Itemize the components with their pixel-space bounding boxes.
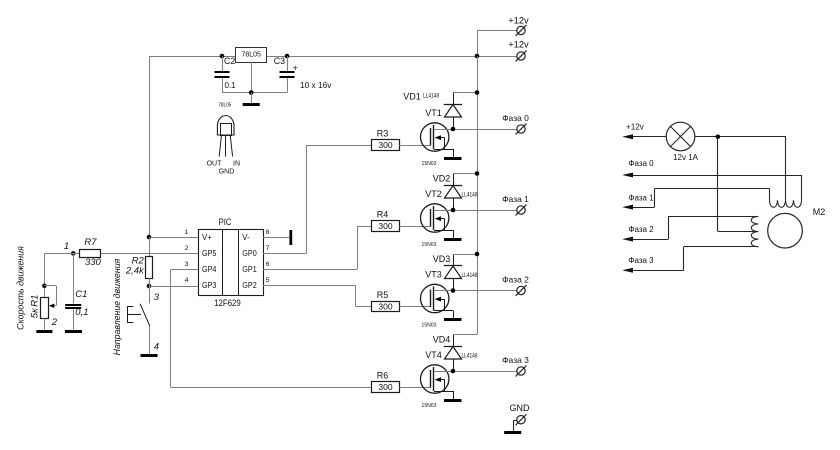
svg-text:2: 2 — [185, 245, 189, 252]
svg-text:+12v: +12v — [626, 123, 644, 132]
svg-text:VD2: VD2 — [433, 173, 451, 183]
svg-text:Фаза 0: Фаза 0 — [628, 159, 654, 168]
svg-text:GP4: GP4 — [202, 265, 217, 274]
svg-text:5: 5 — [266, 277, 270, 284]
svg-text:4: 4 — [185, 277, 189, 284]
svg-text:12F629: 12F629 — [214, 298, 241, 308]
svg-text:4: 4 — [154, 342, 159, 353]
svg-text:1: 1 — [64, 241, 69, 252]
svg-text:15N03: 15N03 — [422, 403, 437, 409]
svg-text:+12v: +12v — [508, 16, 529, 26]
svg-text:LL4148: LL4148 — [462, 192, 478, 199]
svg-text:0.1: 0.1 — [225, 81, 237, 90]
svg-text:GP1: GP1 — [242, 265, 256, 274]
svg-text:1: 1 — [185, 229, 189, 236]
svg-text:Фаза 1: Фаза 1 — [628, 194, 654, 203]
svg-text:7: 7 — [266, 245, 270, 252]
svg-text:GP0: GP0 — [242, 249, 257, 258]
svg-text:V+: V+ — [202, 233, 212, 242]
svg-text:15N03: 15N03 — [422, 161, 437, 167]
svg-text:C2: C2 — [224, 56, 235, 66]
svg-text:M2: M2 — [813, 207, 826, 217]
svg-text:C1: C1 — [75, 289, 87, 300]
svg-text:LL4148: LL4148 — [462, 353, 478, 360]
svg-text:LL4148: LL4148 — [462, 273, 478, 280]
svg-text:IN: IN — [233, 160, 240, 167]
svg-text:GND: GND — [219, 169, 235, 176]
svg-text:300: 300 — [378, 221, 392, 231]
svg-text:GP3: GP3 — [202, 281, 216, 290]
svg-text:GP5: GP5 — [202, 249, 217, 258]
svg-text:R3: R3 — [377, 129, 389, 139]
svg-text:2,4k: 2,4k — [125, 266, 145, 277]
svg-text:300: 300 — [378, 382, 392, 392]
svg-text:VD3: VD3 — [433, 254, 451, 264]
svg-text:C3: C3 — [274, 56, 285, 66]
svg-text:300: 300 — [378, 140, 392, 150]
svg-text:LL4148: LL4148 — [423, 93, 439, 100]
svg-text:12v 1A: 12v 1A — [673, 153, 699, 162]
svg-text:3: 3 — [154, 292, 160, 303]
svg-text:R4: R4 — [377, 210, 389, 220]
svg-text:V-: V- — [242, 233, 250, 242]
svg-text:Направление движения: Направление движения — [112, 258, 122, 355]
svg-text:VT2: VT2 — [425, 189, 442, 199]
svg-text:15N03: 15N03 — [422, 242, 437, 248]
svg-text:6: 6 — [266, 261, 270, 268]
svg-text:Фаза 1: Фаза 1 — [502, 194, 529, 204]
svg-text:VT3: VT3 — [425, 269, 442, 279]
svg-text:GP2: GP2 — [242, 281, 256, 290]
svg-text:R1: R1 — [29, 295, 40, 307]
svg-text:78L05: 78L05 — [218, 102, 231, 108]
svg-text:78L05: 78L05 — [241, 51, 261, 58]
svg-text:Фаза 3: Фаза 3 — [502, 355, 529, 365]
svg-text:300: 300 — [378, 302, 392, 312]
svg-text:15N03: 15N03 — [422, 322, 437, 328]
svg-text:GND: GND — [510, 403, 531, 413]
svg-text:Фаза 2: Фаза 2 — [502, 275, 529, 285]
svg-text:VT4: VT4 — [425, 350, 442, 360]
svg-text:Фаза 3: Фаза 3 — [628, 256, 654, 265]
svg-text:Фаза 0: Фаза 0 — [502, 113, 529, 123]
svg-text:10 x 16v: 10 x 16v — [300, 80, 332, 90]
svg-text:2: 2 — [51, 317, 58, 328]
svg-text:OUT: OUT — [207, 160, 223, 167]
svg-text:VD1: VD1 — [403, 91, 421, 101]
svg-text:Скорость движения: Скорость движения — [16, 246, 26, 330]
svg-text:330: 330 — [85, 257, 102, 268]
svg-text:VD4: VD4 — [433, 334, 451, 344]
svg-text:R7: R7 — [84, 237, 97, 248]
svg-text:Фаза 2: Фаза 2 — [628, 225, 654, 234]
svg-text:R5: R5 — [377, 290, 389, 300]
svg-text:5к: 5к — [29, 308, 40, 318]
svg-text:PIC: PIC — [219, 217, 232, 227]
svg-text:R6: R6 — [377, 371, 389, 381]
svg-text:8: 8 — [266, 229, 270, 236]
svg-text:3: 3 — [185, 261, 189, 268]
svg-text:+: + — [293, 62, 298, 72]
svg-text:0,1: 0,1 — [75, 307, 88, 318]
svg-text:VT1: VT1 — [425, 108, 442, 118]
svg-text:+12v: +12v — [508, 40, 529, 50]
